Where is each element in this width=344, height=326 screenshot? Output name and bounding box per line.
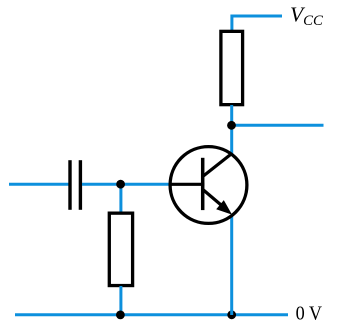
resistor R2 (bias resistor) [109, 213, 132, 285]
resistor R1 (collector load) [221, 31, 243, 104]
capacitor C1 [68, 160, 82, 210]
wire: R1 bottom through collector node down to transistor [230, 105, 233, 155]
node: collector junction [227, 121, 236, 130]
collector lead [203, 153, 232, 176]
wire: capacitor to transistor base [82, 183, 169, 186]
wire: R2 to ground rail [119, 286, 122, 315]
wire: input lead left to capacitor [9, 183, 69, 186]
base lead inside circle [169, 183, 204, 186]
wire: output lead to the right [232, 124, 324, 127]
transistor Q1 (NPN) [169, 147, 247, 224]
emitter lead with arrow [203, 189, 223, 206]
node: emitter at ground rail [227, 310, 236, 319]
svg-text:VCC: VCC [290, 3, 323, 29]
wire: emitter to ground rail [230, 217, 233, 316]
base bar [201, 158, 205, 210]
wire: Vcc corner to R1 top [232, 16, 282, 30]
wire: 0 V ground rail [15, 313, 288, 316]
wire: base node down to R2 [119, 184, 122, 212]
svg-text:0 V: 0 V [296, 304, 323, 325]
node: base junction [116, 180, 125, 189]
node: R2 at ground rail [116, 311, 125, 320]
